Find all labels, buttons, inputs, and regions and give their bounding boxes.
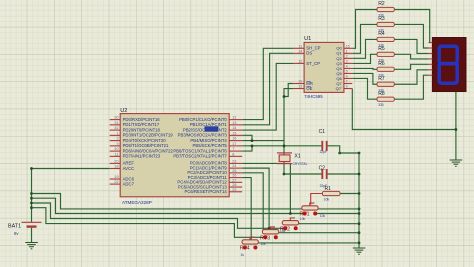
svg-text:10k: 10k — [320, 214, 326, 218]
svg-text:Q7': Q7' — [336, 86, 342, 91]
wire button 4 bar to ground bus — [258, 242, 359, 244]
svg-text:R6: R6 — [378, 61, 385, 67]
svg-text:10k: 10k — [280, 229, 286, 233]
svg-text:AVCC: AVCC — [123, 166, 135, 171]
svg-text:PD2/INT0/PCINT18: PD2/INT0/PCINT18 — [123, 127, 161, 132]
svg-text:PD1/TXD/PCINT17: PD1/TXD/PCINT17 — [123, 122, 160, 127]
resistor R2 330 — [377, 1, 394, 17]
svg-text:PB3/MOSI/OC2A/PCINT3: PB3/MOSI/OC2A/PCINT3 — [178, 133, 228, 138]
svg-text:ATMEGA328P: ATMEGA328P — [122, 200, 152, 205]
wire XTAL2 rail to C1 — [242, 145, 321, 147]
svg-text:X1: X1 — [295, 154, 301, 160]
svg-text:30: 30 — [114, 116, 118, 120]
resistor R1 10k — [311, 186, 340, 205]
svg-text:22: 22 — [114, 180, 118, 184]
svg-text:15: 15 — [346, 44, 350, 48]
svg-text:PB0/ICP1/CLKO/PCINT0: PB0/ICP1/CLKO/PCINT0 — [179, 117, 227, 122]
svg-text:R2: R2 — [378, 1, 385, 7]
svg-text:10k: 10k — [324, 198, 330, 202]
wire battery negative to ground — [31, 228, 33, 243]
svg-text:PC6/RESET/PCINT14: PC6/RESET/PCINT14 — [185, 189, 228, 194]
resistor R7 330 — [377, 76, 394, 92]
wire PB1 to U1 DS — [242, 53, 293, 125]
push button 2 — [280, 217, 306, 233]
svg-text:4: 4 — [346, 64, 348, 68]
svg-text:10: 10 — [298, 80, 302, 84]
resistor R8 330 — [377, 91, 394, 107]
wire PC2 to button 3 — [242, 173, 263, 230]
wire R2 to display segment pin 1 — [394, 10, 429, 43]
U1 pin names — [306, 46, 342, 91]
svg-text:DS: DS — [306, 51, 312, 56]
svg-text:32: 32 — [114, 126, 118, 130]
wire R4 to display segment pin 3 — [394, 39, 428, 53]
wire supply row 3 to button 2 contact — [32, 203, 286, 228]
svg-text:R7: R7 — [378, 76, 385, 82]
svg-text:PD0/RXD/PCINT16: PD0/RXD/PCINT16 — [123, 117, 161, 122]
wire Q0 to R2 — [352, 10, 377, 49]
wire supply row 1 to button 1 bar — [32, 194, 302, 209]
svg-text:2: 2 — [346, 54, 348, 58]
svg-text:PB7/TOSC2/XTAL2/PCINT7: PB7/TOSC2/XTAL2/PCINT7 — [173, 154, 227, 159]
wire crystal bottom to C2 — [284, 173, 322, 175]
svg-text:74HC595: 74HC595 — [304, 94, 323, 99]
svg-text:11: 11 — [115, 152, 119, 156]
resistor R6 330 — [377, 61, 394, 77]
wire PB0 to U1 SH_CP — [242, 48, 293, 119]
svg-text:1: 1 — [116, 131, 118, 135]
junction PC0 row2 — [289, 212, 292, 215]
wire battery positive bus — [31, 169, 33, 223]
svg-text:R4: R4 — [378, 31, 385, 37]
svg-text:PD4/T0/XCK/PCINT20: PD4/T0/XCK/PCINT20 — [123, 138, 167, 143]
junction crystal rails — [251, 139, 361, 175]
svg-text:PD7/AIN1/PCINT23: PD7/AIN1/PCINT23 — [123, 154, 161, 159]
svg-text:ADC7: ADC7 — [123, 181, 135, 186]
svg-text:7: 7 — [232, 147, 234, 151]
svg-text:R3: R3 — [378, 16, 385, 22]
svg-text:PD6/AIN0/OC0A/PCINT22: PD6/AIN0/OC0A/PCINT22 — [123, 148, 174, 153]
svg-text:8: 8 — [232, 152, 234, 156]
wire Q4 to R6 — [352, 67, 377, 70]
resistor R5 330 — [377, 46, 394, 62]
svg-text:27: 27 — [232, 178, 236, 182]
wire C2 to ground bus — [327, 173, 359, 175]
svg-text:U2: U2 — [120, 108, 127, 114]
svg-text:25: 25 — [232, 169, 236, 173]
wire PB2 to U1 ST_CP — [242, 63, 293, 130]
junction display common — [455, 128, 458, 131]
svg-text:BAT1: BAT1 — [8, 224, 21, 230]
ground (right bus) — [353, 248, 366, 254]
net highlight box on PB2 — [205, 126, 219, 131]
svg-text:12: 12 — [298, 59, 302, 63]
wire U1 MR — [284, 84, 293, 97]
junction PC1 row — [268, 227, 271, 230]
wire button 3 bar to ground bus — [279, 232, 359, 234]
wire AVCC supply — [32, 168, 110, 170]
wire button 1 contact to ground bus — [315, 213, 359, 215]
U1 pin numbers — [298, 44, 350, 88]
svg-text:PB6/TOSC1/XTAL1/PCINT6: PB6/TOSC1/XTAL1/PCINT6 — [173, 148, 227, 153]
capacitor C1 22pF — [319, 129, 328, 154]
svg-text:22pF: 22pF — [320, 184, 328, 188]
wire Q7' to display common — [352, 89, 456, 130]
U2 pin numbers — [114, 116, 236, 192]
svg-text:15: 15 — [232, 131, 236, 135]
svg-text:29: 29 — [232, 188, 236, 192]
wire R6 to display segment pin 5 — [394, 64, 428, 69]
junction battery bus taps — [30, 167, 33, 209]
wire ground bus — [358, 153, 360, 249]
wire PB6 jog — [242, 146, 252, 151]
svg-text:2: 2 — [116, 137, 118, 141]
svg-text:31: 31 — [114, 121, 118, 125]
capacitor C2 22pF — [319, 165, 328, 188]
svg-text:13: 13 — [232, 121, 236, 125]
7-segment display — [429, 38, 466, 92]
wire supply row 2 to button 1 contact — [32, 198, 305, 213]
svg-text:26: 26 — [232, 174, 236, 178]
svg-text:23: 23 — [232, 159, 236, 163]
battery BAT1 — [8, 222, 42, 236]
ground (battery) — [25, 243, 38, 249]
svg-text:24: 24 — [232, 164, 236, 168]
wire R1 right lead to bus — [340, 193, 359, 195]
svg-text:R8: R8 — [378, 91, 385, 97]
wire button 2 bar to ground bus — [299, 223, 359, 225]
push button 1 — [300, 203, 326, 218]
junction ground bus taps — [358, 173, 361, 245]
junction MR-OE — [283, 95, 286, 98]
svg-text:22pF: 22pF — [320, 150, 328, 154]
wire supply row 4 to button 3 contact — [32, 208, 266, 238]
wire Q5 to R7 — [352, 73, 377, 84]
svg-text:20: 20 — [114, 159, 118, 163]
U2 pin names — [123, 117, 228, 194]
svg-text:R5: R5 — [378, 46, 385, 52]
wire XTAL1 rail to crystal top — [242, 141, 284, 174]
svg-text:330: 330 — [378, 103, 384, 107]
svg-text:PB4/MISO/PCINT4: PB4/MISO/PCINT4 — [190, 138, 227, 143]
push button 4 — [240, 237, 266, 257]
svg-text:10k: 10k — [260, 242, 266, 246]
ground (display common) — [450, 160, 463, 166]
svg-text:1: 1 — [346, 49, 348, 53]
wire PC3 to button 4 — [242, 178, 251, 240]
push button 3 — [260, 227, 286, 242]
U1 pin stubs — [293, 48, 352, 88]
crystal X1 — [277, 153, 308, 166]
svg-text:PD5/T1/OC0B/PCINT21: PD5/T1/OC0B/PCINT21 — [123, 143, 169, 148]
wire C1 to ground bus — [327, 146, 359, 153]
svg-text:PB5/SCK/PCINT5: PB5/SCK/PCINT5 — [193, 143, 228, 148]
wire PB3 jog to crystal rail — [242, 135, 252, 140]
wire R8 to display segment pin 7 — [394, 75, 428, 99]
resistor R3 330 — [377, 16, 394, 32]
svg-text:5: 5 — [346, 69, 348, 73]
wire display common to ground — [455, 92, 457, 161]
wire PC1 to button 2 — [242, 168, 269, 228]
wire PC0 to button 1 — [242, 163, 290, 213]
svg-text:U1: U1 — [304, 36, 311, 42]
wire Q1 to R3 — [352, 24, 377, 53]
resistor R4 330 — [377, 31, 394, 47]
wire button 1 bar to ground bus — [318, 208, 359, 210]
wire Q2 to R4 — [352, 39, 377, 58]
wire U1 OE — [284, 89, 293, 141]
svg-text:14: 14 — [232, 126, 236, 130]
svg-text:9: 9 — [346, 85, 348, 89]
svg-text:6: 6 — [346, 74, 348, 78]
svg-text:17: 17 — [232, 142, 236, 146]
svg-text:3: 3 — [346, 59, 348, 63]
shift register U1 74HC595 body — [304, 36, 344, 99]
wire Q3 to R5 — [352, 54, 377, 63]
svg-text:C2: C2 — [319, 165, 326, 171]
svg-text:18: 18 — [114, 165, 118, 169]
svg-text:9: 9 — [116, 142, 118, 146]
svg-text:10: 10 — [114, 147, 118, 151]
svg-text:7: 7 — [346, 80, 348, 84]
svg-text:10k: 10k — [300, 217, 306, 221]
svg-text:CRYSTAL: CRYSTAL — [293, 162, 308, 166]
svg-text:C1: C1 — [319, 129, 326, 135]
U2 pin stubs — [110, 120, 243, 192]
svg-text:19: 19 — [114, 175, 118, 179]
wire R5 to display segment pin 4 — [394, 54, 428, 59]
svg-text:1k: 1k — [241, 253, 245, 257]
svg-text:ST_CP: ST_CP — [306, 61, 320, 66]
wire R3 to display segment pin 2 — [394, 24, 428, 48]
svg-text:PD3/INT1/OC2B/PCINT19: PD3/INT1/OC2B/PCINT19 — [123, 133, 174, 138]
svg-text:12: 12 — [232, 116, 236, 120]
microcontroller U2 ATMEGA328P body — [120, 108, 229, 205]
svg-text:14: 14 — [298, 49, 302, 53]
wire Q6 to R8 — [352, 78, 377, 99]
svg-text:13: 13 — [298, 85, 302, 89]
wire R7 to display segment pin 6 — [394, 70, 428, 84]
svg-text:11: 11 — [298, 44, 302, 48]
svg-text:28: 28 — [232, 183, 236, 187]
svg-text:16: 16 — [232, 137, 236, 141]
